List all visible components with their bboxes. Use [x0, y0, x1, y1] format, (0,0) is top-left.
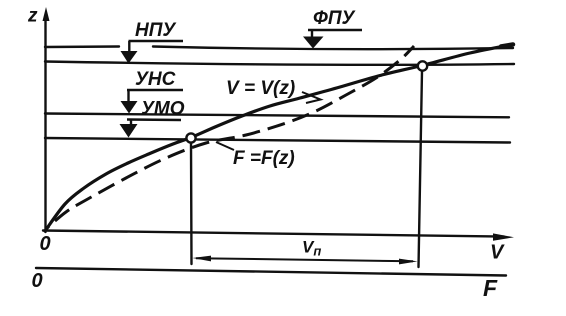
F axis — [36, 268, 506, 276]
NPU marker — [121, 41, 184, 64]
svg-text:0: 0 — [40, 233, 51, 255]
leader to V=V(z) curve — [302, 92, 321, 103]
z axis arrowhead — [43, 7, 50, 21]
svg-text:F: F — [483, 275, 498, 301]
svg-text:УМО: УМО — [141, 99, 185, 120]
vertical drop line left — [190, 143, 193, 265]
node circle lower — [186, 133, 195, 142]
node circle upper — [418, 61, 427, 70]
UNS level line — [45, 114, 509, 118]
UMO level line — [45, 138, 510, 143]
Vp dimension line — [193, 256, 418, 265]
UNS marker — [121, 90, 184, 114]
UMO marker — [120, 120, 182, 138]
V axis arrowhead — [493, 233, 514, 240]
svg-text:НПУ: НПУ — [135, 20, 177, 41]
svg-text:V: V — [490, 242, 505, 264]
svg-text:0: 0 — [32, 270, 43, 292]
FPU marker — [303, 30, 362, 49]
V axis — [43, 231, 504, 237]
FPU level line right part — [153, 47, 513, 50]
NPU level line — [45, 62, 514, 65]
svg-text:V = V(z): V = V(z) — [226, 78, 295, 99]
curve F=F(z) dashed — [46, 46, 414, 229]
svg-text:УНС: УНС — [135, 69, 176, 90]
FPU level line left part — [45, 45, 119, 48]
leader to F=F(z) curve — [216, 142, 234, 150]
vertical drop line right — [419, 71, 423, 267]
curve end thick — [501, 45, 513, 47]
z axis — [44, 16, 46, 232]
curve V=V(z) — [45, 45, 513, 232]
svg-text:F =F(z): F =F(z) — [233, 148, 295, 169]
svg-text:ФПУ: ФПУ — [313, 8, 357, 29]
svg-text:z: z — [27, 6, 38, 27]
